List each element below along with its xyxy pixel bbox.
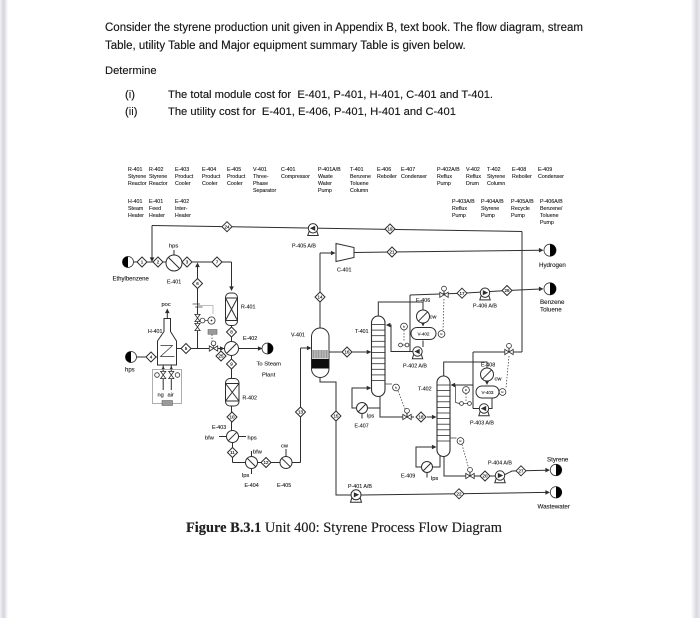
svg-text:11: 11 [230,450,235,455]
steam line double valve station [193,304,203,331]
wire T-402 bottoms styrene [444,457,550,477]
H-401 burner air valve [168,365,180,399]
wire H-401 outlet to E-402 and steam plant [177,346,263,351]
svg-text:Reactor: Reactor [149,181,168,187]
wire wastewater line [361,490,550,495]
svg-text:Pump: Pump [318,188,332,194]
svg-text:19: 19 [387,227,393,232]
svg-text:Hydrogen: Hydrogen [539,262,566,269]
wire H-401 inlet hps [137,356,158,358]
stream diamond 22 [454,489,464,499]
wire V-401 bottoms to P-401 [320,378,351,496]
svg-text:air: air [168,393,174,399]
svg-text:T-402: T-402 [487,167,501,173]
svg-text:Benzene: Benzene [540,299,565,306]
svg-text:27: 27 [518,468,524,473]
svg-text:18: 18 [418,415,424,420]
svg-text:Steam: Steam [128,206,144,212]
svg-text:C-401: C-401 [337,268,351,274]
svg-text:bfw: bfw [253,450,263,456]
svg-text:Waste: Waste [318,174,333,180]
wire E-409 reboiler loop [416,445,440,478]
reboiler E-407 [355,403,375,430]
reactor R-401 [226,293,256,326]
right page edge shading [691,0,700,618]
svg-text:P-404A/B: P-404A/B [481,199,504,205]
svg-text:V-401: V-401 [253,167,267,173]
wire E-407 reboiler loop [352,386,380,419]
svg-text:15: 15 [333,414,339,419]
stream diamond 12 [261,458,271,468]
heater H-401 [148,302,177,365]
stream diamond 7 [212,257,222,267]
column T-401 [355,316,385,397]
svg-text:cw: cw [495,377,503,383]
svg-text:R-401: R-401 [241,305,255,311]
svg-text:E-403: E-403 [212,425,226,431]
wire E-405 to V-401 riser [301,346,312,463]
svg-text:bfw: bfw [205,436,215,442]
svg-text:lps: lps [242,473,249,479]
svg-text:E-409: E-409 [401,474,415,480]
stream diamond 11 [228,448,238,458]
product marker to steam plant [257,343,282,379]
svg-text:14: 14 [317,295,323,300]
svg-text:V-403: V-403 [481,390,493,395]
svg-text:R-401: R-401 [128,167,142,173]
heat exchanger E-404 [242,450,263,490]
stream diamond 21 [387,247,397,257]
determine heading [105,65,157,77]
svg-text:Pump: Pump [437,181,451,187]
stream diamond 9 [227,359,237,369]
svg-text:E-408: E-408 [481,362,495,368]
wire feed to R-401 [229,262,234,291]
svg-text:Product: Product [202,174,221,180]
heat exchanger E-403 [205,425,257,443]
svg-text:Pump: Pump [452,213,466,219]
svg-text:C-401: C-401 [281,167,295,173]
svg-text:Reflux: Reflux [437,174,452,180]
svg-text:Styrene: Styrene [128,174,146,180]
left page edge shading [0,0,8,618]
H-401 burner ng valve [155,365,166,399]
svg-text:10: 10 [229,415,235,420]
svg-text:E-401: E-401 [167,280,181,286]
svg-text:Reboiler: Reboiler [377,174,397,180]
svg-text:R-402: R-402 [149,167,163,173]
wire reactor train vertical [232,326,301,463]
svg-text:P-405A/B: P-405A/B [511,199,534,205]
stream diamond 26 [502,286,512,296]
wire V-402 to P-402 [422,341,424,348]
svg-text:E-408: E-408 [512,167,526,173]
product marker hydrogen [539,244,566,269]
svg-text:Recycle: Recycle [511,206,530,212]
svg-text:Styrene: Styrene [487,174,505,180]
svg-text:R-402: R-402 [243,396,257,402]
wire EB feed line [134,261,232,263]
svg-text:Product: Product [227,174,246,180]
svg-text:P-404 A/B: P-404 A/B [488,461,512,467]
svg-text:21: 21 [389,250,395,255]
wire P-403 discharge riser recycle [473,232,522,409]
svg-text:lps: lps [431,476,438,482]
condenser E-406 [416,298,437,323]
svg-text:V-402: V-402 [417,331,429,336]
stream diamond 1 [137,257,147,267]
stream diamond 10 [227,412,237,422]
svg-text:Heater: Heater [175,213,191,219]
svg-text:P-406 A/B: P-406 A/B [473,304,497,310]
svg-text:E-404: E-404 [202,167,216,173]
svg-text:T-402: T-402 [418,387,432,393]
H-401 burner control box [153,370,182,406]
svg-text:E-404: E-404 [245,483,259,489]
stream diamond 4 [146,352,156,362]
svg-text:20: 20 [482,474,488,479]
svg-text:To Steam: To Steam [257,362,282,368]
svg-text:Styrene: Styrene [481,206,499,212]
wire V-403 to P-403 [489,398,492,409]
svg-text:poc: poc [162,302,171,308]
svg-text:Condenser: Condenser [401,174,427,180]
reflux drum V-403 [476,386,506,398]
equipment legend row 1 [128,167,564,194]
separator V-401 [291,328,329,378]
wire V-401 organic to T-401 [329,350,371,355]
svg-text:Feed: Feed [149,206,161,212]
stream diamond 13 [296,407,306,417]
wire recycle top line [150,226,522,263]
compressor C-401 [336,244,354,274]
svg-text:Phase: Phase [253,181,268,187]
item i [125,89,135,101]
svg-text:Toluene: Toluene [350,181,369,187]
heat exchanger E-405 [277,444,292,490]
stream diamond 14 [315,292,325,302]
svg-text:17: 17 [459,291,465,296]
svg-text:Styrene: Styrene [547,457,569,464]
pump P-405 A/B [292,224,318,250]
svg-text:Reboiler: Reboiler [512,174,532,180]
condenser E-408 [481,362,503,382]
stream diamond 6 [193,279,203,289]
pump P-404 A/B [488,461,512,483]
stream diamond 16 [342,347,352,357]
svg-text:E-403: E-403 [175,167,189,173]
svg-text:Styrene: Styrene [149,174,167,180]
svg-text:E-401: E-401 [149,199,163,205]
svg-text:lps: lps [367,414,374,420]
svg-text:Cooler: Cooler [202,181,218,187]
svg-text:24: 24 [224,224,230,229]
svg-text:Ethylbenzene: Ethylbenzene [113,277,150,283]
reflux drum V-402 [411,328,445,340]
wire T-401 bottoms to T-402 feed [380,397,437,420]
svg-text:Column: Column [487,181,505,187]
svg-text:Toluene: Toluene [540,307,562,314]
svg-text:Pump: Pump [481,213,495,219]
svg-text:Reactor: Reactor [128,181,147,187]
stream diamond 25 [216,351,226,361]
pump P-403 A/B [470,404,494,427]
svg-text:E-406: E-406 [416,298,430,304]
svg-text:Pump: Pump [511,213,525,219]
svg-text:E-405: E-405 [227,167,241,173]
svg-text:Condenser: Condenser [538,174,564,180]
svg-text:E-402: E-402 [175,199,189,205]
stream diamond 27 [516,466,526,476]
svg-text:Reflux: Reflux [466,174,481,180]
equipment legend row 2 [128,199,563,226]
svg-text:E-405: E-405 [277,483,291,489]
reactor R-402 [226,379,257,407]
heat exchanger E-401 [166,244,182,286]
svg-text:Column: Column [350,188,368,194]
svg-text:Three-: Three- [253,174,269,180]
T-401 level controller [385,384,406,410]
svg-text:cw: cw [430,315,438,321]
svg-text:Inter-: Inter- [175,206,188,212]
svg-text:Benzene: Benzene [350,174,371,180]
svg-text:Toluene: Toluene [540,213,559,219]
pump P-402 A/B [403,347,427,370]
svg-text:Cooler: Cooler [175,181,191,187]
svg-text:Separator: Separator [253,188,276,194]
svg-text:Drum: Drum [466,181,480,187]
wire T-402 overhead to E-408 [444,362,490,385]
stream diamond 3 [182,257,192,267]
stream diamond 2 [153,257,163,267]
svg-text:Heater: Heater [149,213,165,219]
distillate control valve [440,286,448,330]
svg-text:P-403 A/B: P-403 A/B [470,421,494,427]
stream diamond 20 [480,471,490,481]
V-403 side instruments [456,385,472,405]
item ii [125,106,137,118]
pump P-401 A/B [348,484,372,502]
stream diamond 5 [181,344,191,354]
svg-text:E-406: E-406 [377,167,391,173]
heat exchanger E-402 [225,336,258,356]
svg-text:hps: hps [125,368,135,374]
svg-text:cw: cw [281,444,289,450]
svg-text:25: 25 [218,354,224,359]
styrene line control valve [466,467,474,478]
stream diamond 17 [457,288,467,298]
stream diamond 15 [331,411,341,421]
svg-text:V-401: V-401 [291,333,305,339]
svg-text:V-402: V-402 [466,167,480,173]
stream diamond 8 [227,327,237,337]
svg-text:E-407: E-407 [355,424,369,430]
reboiler E-409 [401,462,438,483]
T-402 feed control valve [403,408,411,419]
wire steam mix vertical [195,263,200,349]
svg-text:E-409: E-409 [538,167,552,173]
svg-text:13: 13 [298,410,304,415]
svg-text:E-407: E-407 [401,167,415,173]
svg-text:ng: ng [158,393,164,399]
wire C-401 outlet hydrogen line [354,248,544,253]
svg-text:hps: hps [169,244,178,250]
product marker styrene [547,457,569,476]
svg-text:H-401: H-401 [148,329,162,335]
wire T-402 reflux [451,383,474,388]
svg-text:Heater: Heater [128,213,144,219]
column T-402 [418,376,450,457]
svg-text:Cooler: Cooler [227,181,243,187]
stream diamond 24 [222,222,232,232]
svg-text:Plant: Plant [262,373,276,379]
E-402 inlet control valve with controller [198,306,218,352]
svg-text:P-401 A/B: P-401 A/B [348,484,372,490]
feed marker ethylbenzene [113,257,150,283]
V-402 side instruments [399,323,409,347]
svg-text:E-402: E-402 [243,336,257,342]
svg-text:Compressor: Compressor [281,174,310,180]
svg-text:P-405 A/B: P-405 A/B [292,244,316,250]
stream diamond 18 [416,412,426,422]
svg-text:hps: hps [248,436,257,442]
svg-text:Wastewater: Wastewater [538,504,570,511]
svg-text:H-401: H-401 [128,199,142,205]
svg-text:T-401: T-401 [350,167,364,173]
svg-text:P-403A/B: P-403A/B [452,199,475,205]
svg-text:Water: Water [318,181,332,187]
recycle control valve [505,343,513,388]
svg-text:Pump: Pump [540,220,554,226]
svg-text:22: 22 [456,491,462,496]
svg-text:Reflux: Reflux [452,206,467,212]
svg-text:P-402A/B: P-402A/B [437,167,460,173]
svg-text:26: 26 [504,288,510,293]
wire P-402 reflux to T-401 [386,323,413,352]
product marker benzene toluene [540,283,565,314]
svg-text:P-406A/B: P-406A/B [540,199,563,205]
svg-text:P-401A/B: P-401A/B [318,167,341,173]
question paragraph [105,20,583,55]
svg-text:P-402 A/B: P-402 A/B [403,364,427,370]
svg-text:12: 12 [263,460,269,465]
svg-text:Product: Product [175,174,194,180]
wire V-401 top to C-401 [320,251,336,328]
T-402 level controller [450,438,469,470]
wire T-401 distillate line benzene toluene [410,287,544,352]
svg-text:Benzene/: Benzene/ [540,206,563,212]
svg-text:16: 16 [344,350,350,355]
stream diamond 19 [385,224,395,234]
wire T-401 overhead to E-406 [378,302,425,327]
feed marker hps [125,352,137,374]
product marker wastewater [538,487,570,511]
svg-text:T-401: T-401 [355,329,369,335]
pump P-406 A/B [473,288,497,310]
figure caption [186,520,502,537]
